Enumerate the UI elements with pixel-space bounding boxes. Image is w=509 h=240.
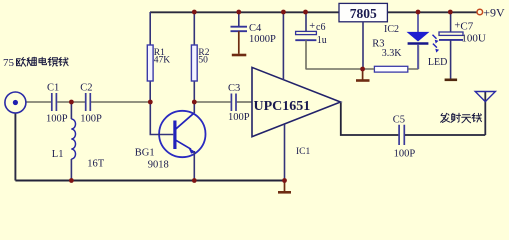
svg-text:BG1: BG1 bbox=[135, 148, 155, 159]
node 7805 ground bbox=[360, 67, 365, 72]
wire C3 to IC1 input bbox=[237, 101, 252, 103]
wire bottom rail bbox=[15, 180, 284, 182]
svg-text:IC1: IC1 bbox=[296, 147, 311, 157]
node dots top rail bbox=[69, 10, 453, 183]
capacitor C1 bbox=[46, 83, 68, 125]
resistor R2 bbox=[191, 12, 209, 102]
capacitor C3 bbox=[228, 83, 250, 123]
node emitter bottom bbox=[192, 178, 197, 183]
capacitor C4 bbox=[231, 12, 277, 55]
wire left drop from connector bbox=[14, 113, 16, 181]
glyph 欧 bbox=[17, 57, 26, 66]
wire connector to C1 bbox=[26, 101, 51, 103]
coax connector J1 bbox=[5, 92, 26, 113]
node L1 top bbox=[69, 100, 74, 105]
svg-text:7805: 7805 bbox=[350, 6, 377, 21]
svg-text:C4: C4 bbox=[249, 23, 262, 34]
label 75 ohm cable bbox=[3, 57, 68, 69]
svg-text:9018: 9018 bbox=[148, 160, 169, 171]
ground under 7805/R3 bbox=[356, 69, 370, 81]
svg-text:47K: 47K bbox=[154, 55, 171, 65]
svg-text:+9V: +9V bbox=[483, 5, 505, 19]
transistor Q1 BG1 bbox=[135, 102, 206, 181]
op-amp U1 UPC1651 bbox=[252, 67, 341, 157]
glyph 天 bbox=[462, 115, 471, 123]
inductor L1 bbox=[52, 102, 105, 181]
node C4 top bbox=[236, 10, 241, 15]
node LED top bbox=[416, 10, 421, 15]
svg-text:LED: LED bbox=[428, 57, 447, 68]
node C7 top bbox=[448, 10, 453, 15]
svg-text:50: 50 bbox=[198, 55, 208, 65]
svg-text:IC2: IC2 bbox=[384, 24, 399, 35]
label transmit antenna bbox=[441, 113, 482, 122]
node collector bbox=[192, 100, 197, 105]
node base bbox=[148, 100, 153, 105]
wire C6 to gnd node bbox=[306, 68, 363, 70]
glyph 缆 bbox=[48, 57, 57, 66]
resistor R1 bbox=[147, 12, 170, 102]
svg-text:100P: 100P bbox=[394, 149, 416, 160]
LED D1 bbox=[408, 12, 448, 69]
glyph 线 bbox=[472, 113, 481, 122]
glyph 射 bbox=[451, 113, 461, 122]
node C6 top bbox=[303, 10, 308, 15]
wire top rail left bbox=[150, 11, 339, 13]
svg-text:1u: 1u bbox=[317, 35, 327, 46]
glyph 姆 bbox=[27, 57, 36, 66]
ground under IC1 bbox=[278, 181, 291, 193]
antenna bbox=[475, 92, 495, 136]
node R2 top bbox=[192, 10, 197, 15]
+9V terminal bbox=[477, 5, 505, 19]
regulator IC2 7805 bbox=[339, 3, 399, 35]
resistor R3 bbox=[363, 38, 419, 72]
svg-text:100P: 100P bbox=[46, 114, 68, 125]
svg-text:UPC1651: UPC1651 bbox=[254, 99, 311, 114]
wire IC1 ground pin bbox=[284, 124, 286, 180]
svg-text:C7: C7 bbox=[460, 21, 473, 33]
svg-text:C3: C3 bbox=[228, 83, 240, 94]
node IC1 power bbox=[281, 10, 286, 15]
glyph 电 bbox=[39, 57, 46, 64]
wire top rail right bbox=[387, 11, 477, 13]
node L1 bottom bbox=[69, 178, 74, 183]
node IC1 ground bbox=[282, 178, 287, 183]
capacitor C7 electrolytic bbox=[439, 12, 486, 80]
svg-text:L1: L1 bbox=[52, 149, 64, 160]
capacitor C6 electrolytic bbox=[295, 12, 327, 69]
wire collector node to C3 bbox=[194, 101, 230, 103]
svg-text:75: 75 bbox=[3, 57, 15, 69]
glyph 发 bbox=[441, 113, 450, 122]
svg-text:C1: C1 bbox=[47, 83, 59, 94]
wire IC1 power pin bbox=[282, 12, 284, 80]
wire C2 to base node bbox=[91, 101, 150, 103]
svg-text:100U: 100U bbox=[461, 33, 486, 45]
capacitor C5 bbox=[393, 115, 486, 160]
svg-text:+: + bbox=[309, 21, 315, 32]
svg-text:16T: 16T bbox=[87, 159, 105, 170]
wire 7805 ground pin bbox=[362, 22, 364, 69]
wire C1 to C2 bbox=[57, 101, 85, 103]
capacitor C2 bbox=[80, 83, 102, 125]
svg-text:c6: c6 bbox=[316, 22, 325, 33]
svg-text:1000P: 1000P bbox=[249, 34, 276, 45]
glyph 线 bbox=[59, 57, 68, 66]
svg-text:C5: C5 bbox=[393, 115, 405, 126]
svg-text:3.3K: 3.3K bbox=[382, 48, 403, 59]
wire IC1 output bbox=[341, 103, 399, 135]
svg-text:100P: 100P bbox=[228, 112, 250, 123]
svg-text:C2: C2 bbox=[80, 83, 92, 94]
svg-text:100P: 100P bbox=[80, 114, 102, 125]
